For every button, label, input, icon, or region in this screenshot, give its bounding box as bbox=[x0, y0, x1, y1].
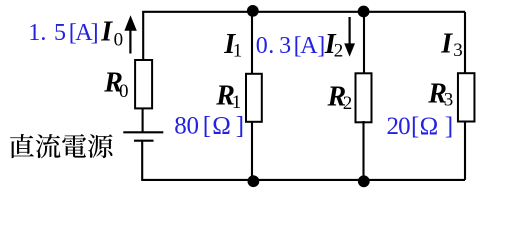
battery short plate (negative) bbox=[134, 140, 154, 142]
label DC power supply 直流電源 (vector outlines) bbox=[10, 134, 112, 158]
battery long plate (positive) bbox=[123, 131, 163, 133]
wire R0 to battery bbox=[142, 108, 144, 132]
svg-text:1.5[A]: 1.5[A] bbox=[28, 20, 98, 46]
current label I1 bbox=[223, 29, 242, 61]
svg-text:0: 0 bbox=[119, 81, 129, 102]
junction node top above R1 bbox=[247, 5, 259, 17]
svg-text:2: 2 bbox=[343, 93, 353, 114]
current label I3 bbox=[440, 29, 463, 62]
wire left branch (top rail to R0) bbox=[142, 12, 144, 61]
wire R3 branch (right side lower) bbox=[464, 121, 466, 180]
resistor label R3 bbox=[427, 79, 453, 111]
svg-text:1: 1 bbox=[232, 92, 242, 113]
svg-text:3: 3 bbox=[444, 90, 454, 111]
junction node top above R2 bbox=[358, 6, 370, 18]
wire battery to bottom rail bbox=[141, 141, 143, 180]
wire R3 branch (right side upper) bbox=[464, 12, 466, 75]
svg-text:0: 0 bbox=[114, 29, 124, 50]
svg-text:1: 1 bbox=[233, 40, 243, 61]
wire R2 branch upper bbox=[363, 12, 365, 75]
wire R1 branch lower bbox=[251, 121, 253, 180]
svg-text:2: 2 bbox=[334, 41, 344, 62]
svg-text:20[Ω]: 20[Ω] bbox=[387, 113, 454, 140]
svg-text:3: 3 bbox=[453, 40, 463, 61]
current arrow I2 pointing down bbox=[344, 17, 355, 57]
wire R2 branch lower bbox=[362, 121, 364, 180]
resistor label R0 bbox=[103, 67, 128, 102]
wire R1 branch upper bbox=[251, 12, 253, 75]
resistor R3 bbox=[458, 73, 475, 121]
junction node bottom below R2 bbox=[358, 175, 370, 187]
resistor R2 bbox=[356, 73, 372, 122]
resistor label R2 bbox=[327, 81, 353, 114]
resistor label R1 bbox=[215, 81, 241, 114]
svg-text:I: I bbox=[100, 17, 113, 48]
wire bottom rail bbox=[141, 179, 465, 181]
current arrow I0 pointing up bbox=[124, 15, 136, 53]
svg-text:80[Ω]: 80[Ω] bbox=[174, 112, 244, 139]
current label I0 bbox=[100, 17, 123, 51]
svg-text:0.3[A]: 0.3[A] bbox=[256, 33, 325, 59]
junction node bottom below R1 bbox=[248, 175, 260, 187]
wire top rail bbox=[142, 11, 465, 13]
resistor R1 bbox=[246, 74, 262, 122]
svg-text:I: I bbox=[440, 29, 453, 60]
current label I2 bbox=[324, 29, 344, 62]
resistor R0 bbox=[135, 60, 152, 108]
